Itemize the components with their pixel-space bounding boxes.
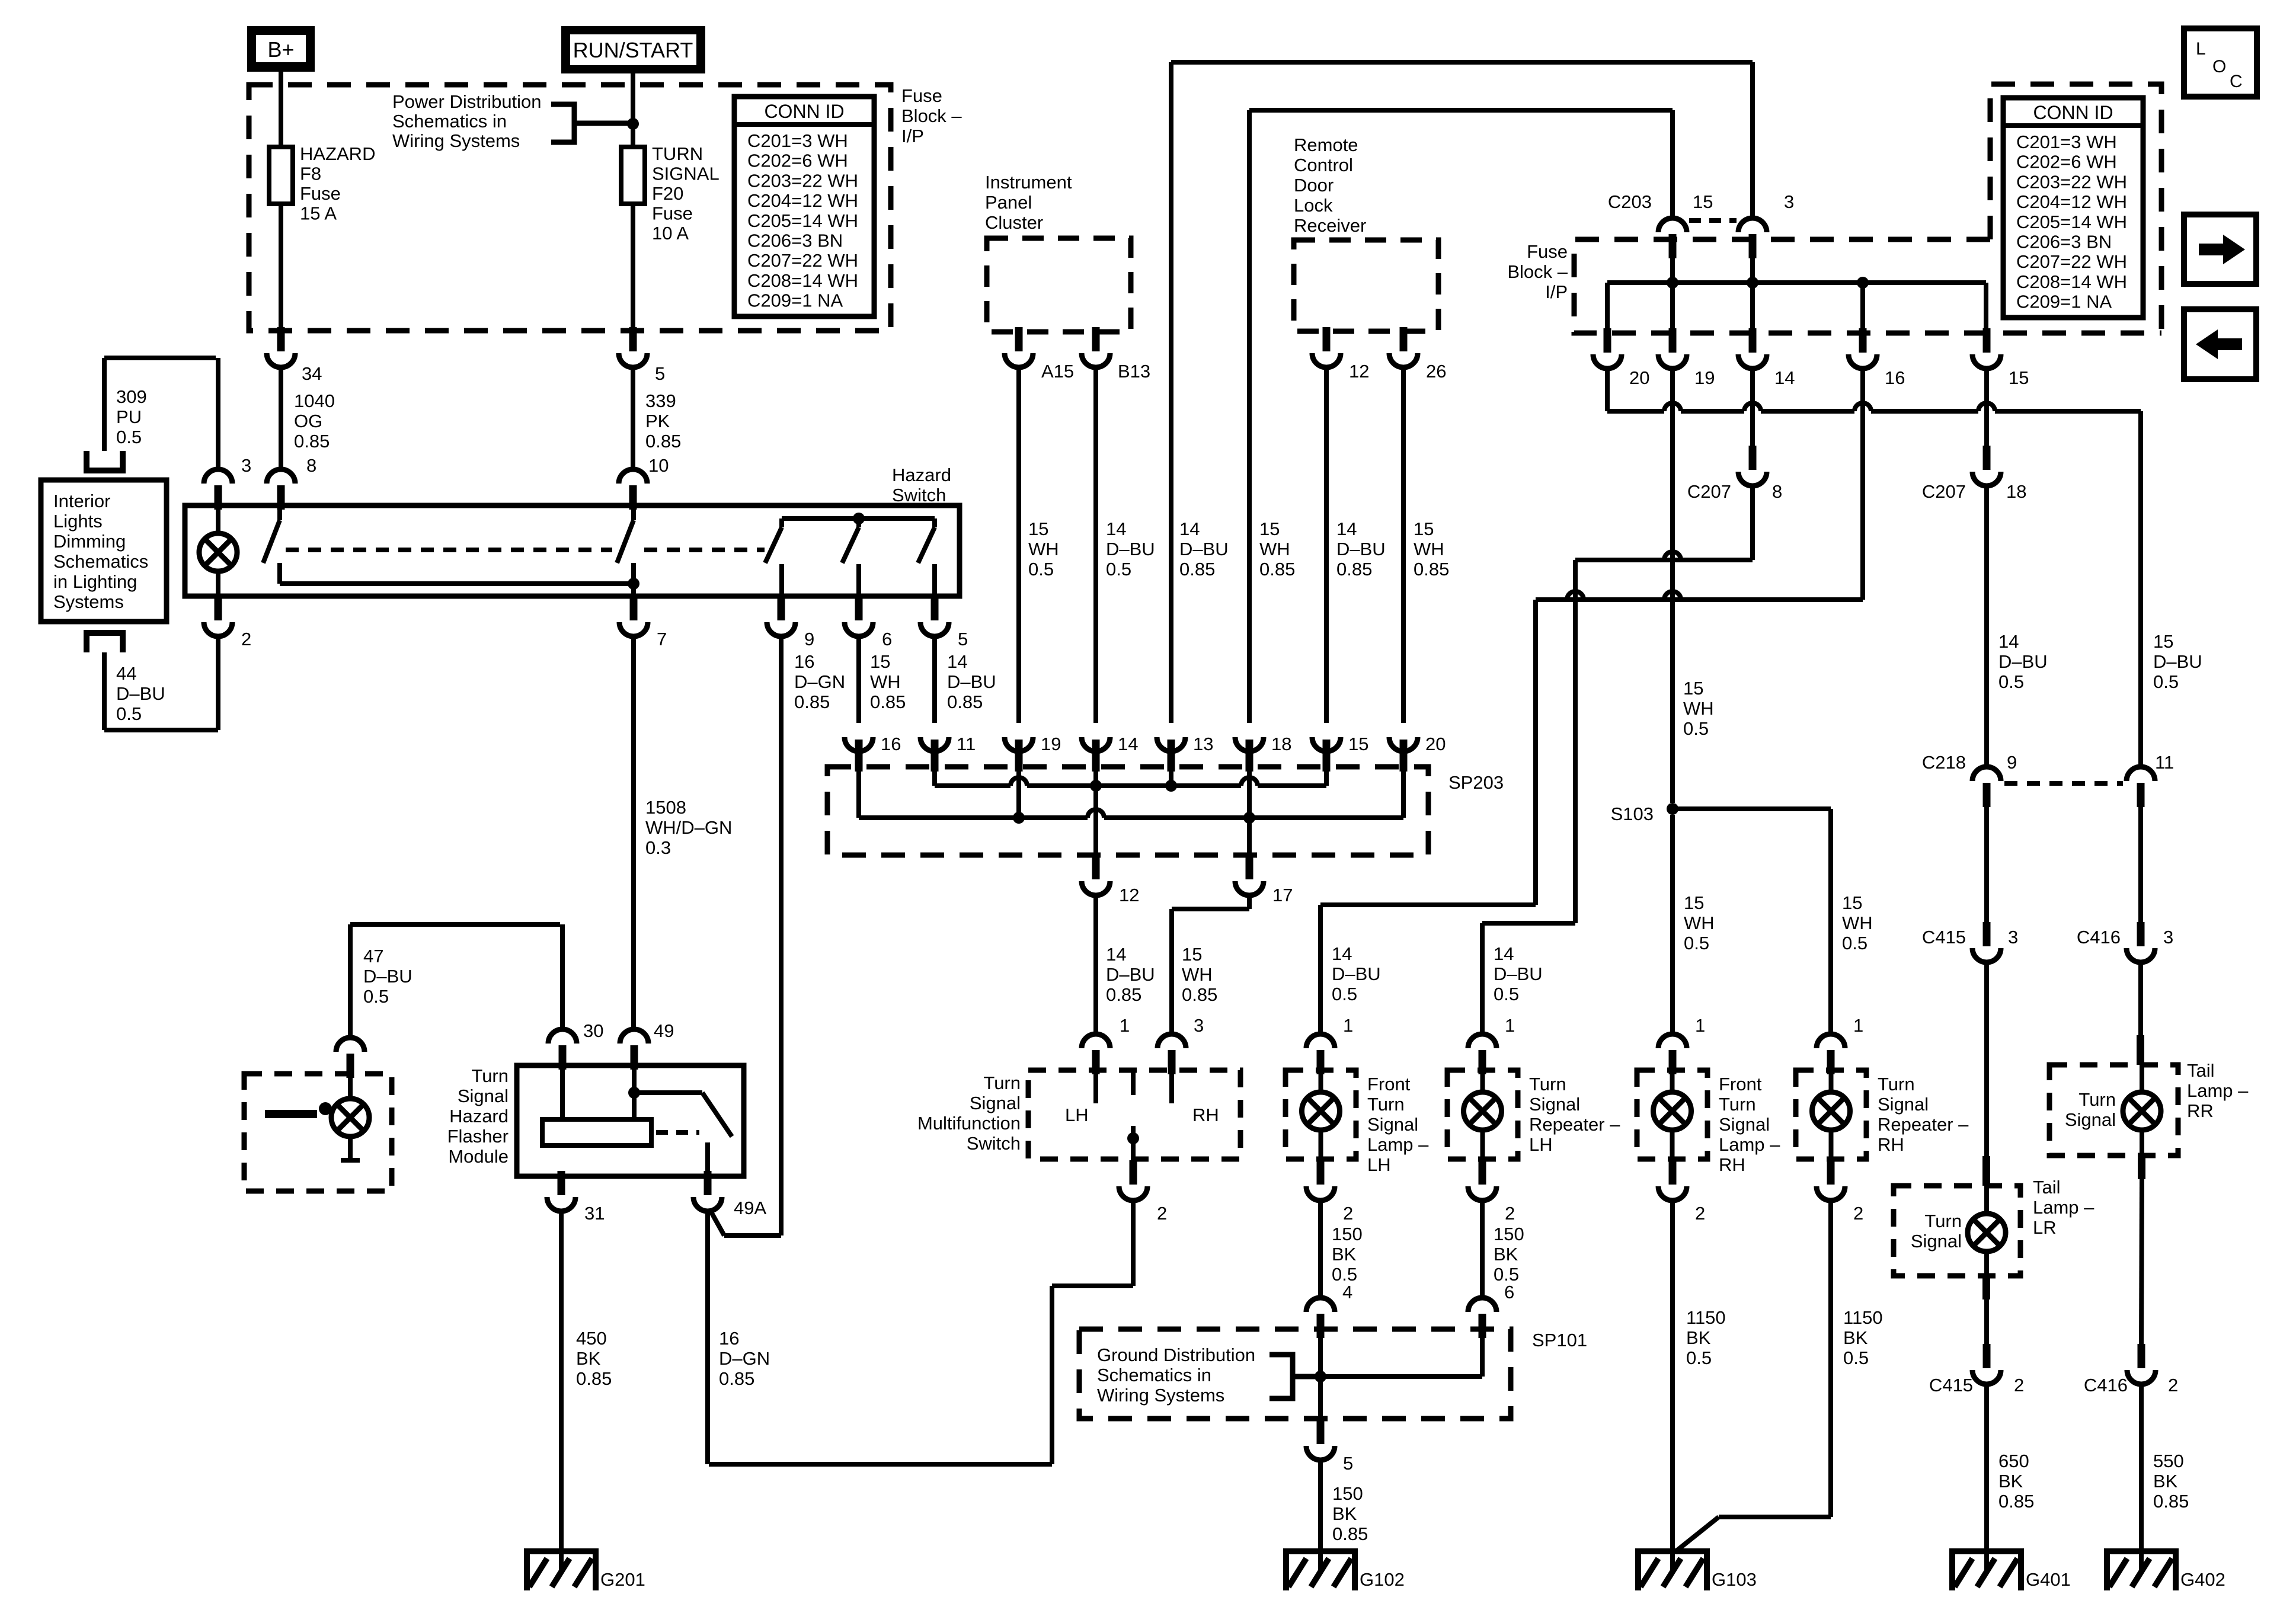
svg-text:Signal: Signal bbox=[1719, 1114, 1770, 1135]
svg-text:BK: BK bbox=[1843, 1327, 1868, 1348]
arrow box (right turn) bbox=[2184, 215, 2256, 284]
svg-text:5: 5 bbox=[1343, 1453, 1353, 1474]
svg-text:Block –: Block – bbox=[1507, 261, 1568, 282]
svg-text:15: 15 bbox=[1414, 518, 1434, 539]
flasher linkage dashed bbox=[656, 1130, 699, 1135]
wire A15 15 WH 0.5 to SP203-19 bbox=[1016, 367, 1021, 723]
svg-text:F8: F8 bbox=[300, 164, 321, 184]
svg-text:D–BU: D–BU bbox=[363, 966, 412, 987]
svg-text:2: 2 bbox=[1853, 1203, 1863, 1224]
svg-text:0.5: 0.5 bbox=[1998, 671, 2024, 692]
connector 1 lamp bbox=[1827, 1050, 1835, 1074]
wire remote-12 14 D-BU 0.85 to SP203-15 bbox=[1324, 367, 1329, 723]
svg-text:0.5: 0.5 bbox=[1106, 559, 1131, 580]
svg-text:Schematics in: Schematics in bbox=[1097, 1365, 1211, 1385]
svg-text:15: 15 bbox=[1842, 892, 1862, 913]
svg-text:Lamp –: Lamp – bbox=[2187, 1080, 2249, 1101]
bracket ground distribution bbox=[1269, 1355, 1293, 1398]
svg-text:1: 1 bbox=[1120, 1015, 1130, 1036]
svg-text:14: 14 bbox=[1106, 944, 1126, 965]
svg-text:Turn: Turn bbox=[983, 1073, 1021, 1093]
svg-text:A15: A15 bbox=[1041, 361, 1074, 382]
wires lamp LH / repeater LH grounds to SP101 bbox=[1318, 1201, 1323, 1298]
svg-text:0.5: 0.5 bbox=[116, 703, 142, 724]
svg-text:BK: BK bbox=[1494, 1244, 1518, 1265]
connector pin 14 fuse block right bbox=[1749, 328, 1757, 353]
wire SP203-13 up and over to C203-3 bbox=[1169, 62, 1173, 723]
svg-text:0.85: 0.85 bbox=[794, 692, 830, 712]
svg-text:S103: S103 bbox=[1611, 804, 1654, 824]
svg-text:1: 1 bbox=[1695, 1015, 1705, 1036]
svg-text:C415: C415 bbox=[1929, 1375, 1973, 1395]
svg-text:Power Distribution: Power Distribution bbox=[392, 91, 542, 112]
svg-text:15: 15 bbox=[1259, 518, 1280, 539]
svg-text:20: 20 bbox=[1425, 734, 1446, 754]
svg-text:14: 14 bbox=[1332, 943, 1352, 964]
Turn Signal Repeater RH bbox=[1796, 1070, 1866, 1159]
tail lamp LR bulb bbox=[1968, 1214, 2006, 1251]
flasher indicator lamp dashed box bbox=[244, 1074, 392, 1191]
svg-text:LH: LH bbox=[1065, 1105, 1089, 1125]
svg-text:Schematics: Schematics bbox=[53, 551, 148, 572]
svg-text:15: 15 bbox=[1693, 191, 1713, 212]
connector pin 34 (fuse block) bbox=[277, 327, 285, 351]
svg-text:2: 2 bbox=[1695, 1203, 1705, 1224]
connector C207-8 bbox=[1749, 446, 1757, 470]
connector 2 lamp bbox=[1317, 1160, 1325, 1185]
svg-text:G103: G103 bbox=[1712, 1569, 1757, 1590]
svg-text:RUN/START: RUN/START bbox=[573, 38, 693, 62]
wire C218-11 to C416-3 bbox=[2138, 795, 2143, 927]
svg-text:Turn: Turn bbox=[1924, 1211, 1962, 1231]
svg-text:SP203: SP203 bbox=[1448, 772, 1504, 793]
C207-8 wire to repeater LH bbox=[1750, 486, 1755, 560]
connector C203-15 bbox=[1669, 234, 1677, 258]
svg-text:Signal: Signal bbox=[2065, 1109, 2116, 1130]
svg-text:D–BU: D–BU bbox=[1179, 539, 1229, 559]
connector pin 8 hazard switch bbox=[277, 485, 285, 510]
svg-text:10 A: 10 A bbox=[652, 223, 689, 244]
ground G201 bbox=[527, 1548, 596, 1554]
SP203 top connector 14 bbox=[1082, 737, 1110, 751]
tail lamp RR bulb bbox=[2123, 1092, 2161, 1130]
svg-text:G401: G401 bbox=[2026, 1569, 2071, 1590]
svg-text:Receiver: Receiver bbox=[1294, 215, 1366, 236]
svg-text:Flasher: Flasher bbox=[447, 1126, 509, 1147]
svg-text:C208=14 WH: C208=14 WH bbox=[747, 270, 858, 291]
svg-text:3: 3 bbox=[2163, 927, 2173, 948]
svg-text:14: 14 bbox=[1106, 518, 1126, 539]
wire 650 BK to G401 bbox=[1984, 1384, 1989, 1571]
fuse block I/P dashed box (right) bbox=[1574, 239, 2161, 333]
svg-text:0.85: 0.85 bbox=[1332, 1523, 1368, 1544]
pin 16 wire to Front LH lamp bbox=[1860, 369, 1865, 600]
flasher internals: coil and switch bbox=[560, 1062, 565, 1119]
svg-text:15: 15 bbox=[870, 651, 890, 672]
svg-text:15: 15 bbox=[1348, 734, 1368, 754]
SP203 through wire 18 to 17 bbox=[1247, 770, 1252, 855]
svg-text:3: 3 bbox=[1784, 191, 1794, 212]
svg-text:14: 14 bbox=[1336, 518, 1357, 539]
SP203 top connector 15 bbox=[1312, 737, 1341, 751]
connector pin 19 fuse block right bbox=[1669, 328, 1677, 353]
connector C218-9 bbox=[1983, 783, 1991, 807]
RUN/START power feed box bbox=[561, 26, 705, 73]
svg-text:Fuse: Fuse bbox=[901, 85, 942, 106]
connector flasher indicator lamp bbox=[347, 1054, 354, 1078]
svg-text:3: 3 bbox=[1194, 1015, 1204, 1036]
svg-text:0.5: 0.5 bbox=[363, 986, 389, 1007]
svg-text:4: 4 bbox=[1342, 1282, 1352, 1302]
svg-text:34: 34 bbox=[302, 363, 322, 384]
svg-text:16: 16 bbox=[1885, 367, 1905, 388]
Tail Lamp LR dashed box bbox=[1894, 1186, 2020, 1276]
svg-text:2: 2 bbox=[1343, 1203, 1353, 1224]
rocker switch blade at 1449 bbox=[856, 518, 861, 527]
connector 1 lamp bbox=[1669, 1050, 1677, 1074]
svg-text:17: 17 bbox=[1272, 885, 1293, 905]
svg-text:Signal: Signal bbox=[1878, 1094, 1929, 1115]
svg-text:14: 14 bbox=[1494, 943, 1514, 964]
svg-text:C203=22 WH: C203=22 WH bbox=[747, 170, 858, 191]
connector 2 lamp bbox=[1479, 1160, 1486, 1185]
SP203 bottom connector 17 bbox=[1246, 855, 1253, 879]
svg-text:D–BU: D–BU bbox=[1494, 964, 1543, 984]
svg-text:D–BU: D–BU bbox=[1998, 651, 2048, 672]
svg-text:0.5: 0.5 bbox=[2153, 671, 2179, 692]
svg-text:0.85: 0.85 bbox=[719, 1368, 754, 1389]
svg-text:Fuse: Fuse bbox=[652, 203, 693, 224]
wire F20 to connector 5 bbox=[631, 204, 635, 332]
splice pack SP101 dashed box bbox=[1079, 1329, 1511, 1419]
SP101 internals bbox=[1318, 1331, 1323, 1419]
svg-text:Instrument: Instrument bbox=[985, 172, 1072, 193]
svg-text:Front: Front bbox=[1719, 1074, 1762, 1094]
SP203 bottom connector 12 bbox=[1092, 855, 1100, 879]
pin 20 bus to right and down bbox=[1605, 369, 1610, 411]
Tail Lamp RR dashed box bbox=[2049, 1065, 2178, 1156]
svg-text:0.5: 0.5 bbox=[1686, 1347, 1712, 1368]
B+ power feed box bbox=[247, 26, 315, 72]
svg-text:20: 20 bbox=[1629, 367, 1649, 388]
ground G401 bbox=[1952, 1548, 2021, 1554]
wire hazard pin 6 to SP203-16 bbox=[856, 636, 861, 723]
svg-text:12: 12 bbox=[1119, 885, 1139, 905]
svg-text:Front: Front bbox=[1367, 1074, 1411, 1094]
svg-text:Signal: Signal bbox=[1529, 1094, 1580, 1115]
Turn Signal Repeater LH bbox=[1447, 1070, 1518, 1159]
svg-text:150: 150 bbox=[1494, 1224, 1524, 1244]
svg-text:B+: B+ bbox=[267, 37, 294, 62]
wire hazard pin 5 to SP203-11 bbox=[932, 636, 937, 723]
flasher coil bbox=[542, 1119, 651, 1145]
svg-text:16: 16 bbox=[794, 651, 814, 672]
wire flasher 31 (450 BK) to G201 bbox=[559, 1211, 564, 1571]
svg-text:G201: G201 bbox=[600, 1569, 645, 1590]
svg-text:0.85: 0.85 bbox=[870, 692, 906, 712]
svg-text:WH: WH bbox=[1414, 539, 1444, 559]
svg-text:CONN ID: CONN ID bbox=[764, 101, 844, 122]
pin 19 wire down to S103 and Front RH lamp bbox=[1670, 369, 1675, 803]
svg-text:14: 14 bbox=[947, 651, 967, 672]
SP203 top connector 11 bbox=[920, 737, 949, 751]
right arrow bbox=[2199, 235, 2245, 264]
svg-text:D–GN: D–GN bbox=[794, 671, 845, 692]
svg-text:0.85: 0.85 bbox=[1106, 984, 1141, 1005]
svg-text:C204=12 WH: C204=12 WH bbox=[2016, 191, 2127, 212]
svg-text:0.3: 0.3 bbox=[645, 837, 671, 858]
svg-text:LR: LR bbox=[2033, 1217, 2057, 1238]
svg-text:WH: WH bbox=[1182, 964, 1213, 985]
svg-text:C416: C416 bbox=[2084, 1375, 2128, 1395]
svg-text:0.5: 0.5 bbox=[1028, 559, 1054, 580]
svg-text:Wiring Systems: Wiring Systems bbox=[392, 130, 520, 151]
svg-text:BK: BK bbox=[2153, 1471, 2178, 1491]
connector 1 lamp bbox=[1479, 1050, 1486, 1074]
svg-text:Control: Control bbox=[1294, 155, 1353, 175]
connector pin 15 fuse block right bbox=[1983, 328, 1991, 353]
svg-text:2: 2 bbox=[1157, 1203, 1167, 1224]
svg-text:C208=14 WH: C208=14 WH bbox=[2016, 271, 2127, 292]
svg-text:Lock: Lock bbox=[1294, 195, 1333, 216]
wire SP203-17 to multifunction switch RH bbox=[1247, 895, 1252, 909]
svg-text:Switch: Switch bbox=[967, 1133, 1021, 1154]
wire repeater RH ground to G103 bbox=[1828, 1201, 1833, 1517]
hazard indicator lamp bbox=[199, 533, 237, 571]
svg-text:1508: 1508 bbox=[645, 797, 686, 818]
svg-text:C205=14 WH: C205=14 WH bbox=[2016, 212, 2127, 232]
flasher switch blade bbox=[702, 1093, 732, 1137]
svg-text:339: 339 bbox=[645, 391, 676, 411]
svg-text:Tail: Tail bbox=[2033, 1177, 2061, 1198]
dimmer switch blade (pin 8 line) bbox=[277, 505, 282, 520]
svg-text:0.85: 0.85 bbox=[2153, 1491, 2189, 1512]
svg-text:1: 1 bbox=[1853, 1015, 1863, 1036]
connector 2 lamp bbox=[1669, 1160, 1677, 1185]
svg-text:D–BU: D–BU bbox=[2153, 651, 2202, 672]
svg-text:Signal: Signal bbox=[1367, 1114, 1418, 1135]
svg-text:B13: B13 bbox=[1118, 361, 1150, 382]
svg-text:14: 14 bbox=[1998, 631, 2019, 652]
SP203 through wire 14 to 12 bbox=[1093, 770, 1098, 855]
svg-text:C416: C416 bbox=[2077, 927, 2121, 948]
Hazard Switch box bbox=[185, 505, 960, 596]
svg-text:PK: PK bbox=[645, 411, 670, 431]
wire hazard pin 7 (1508 WH/D-GN) down to flasher 49 bbox=[631, 636, 636, 1029]
svg-text:Repeater –: Repeater – bbox=[1529, 1114, 1620, 1135]
wire 550 BK to G402 bbox=[2139, 1384, 2144, 1571]
svg-text:RH: RH bbox=[1878, 1134, 1904, 1155]
svg-text:C209=1 NA: C209=1 NA bbox=[747, 290, 843, 311]
svg-text:0.85: 0.85 bbox=[947, 692, 983, 712]
svg-text:14: 14 bbox=[1118, 734, 1138, 754]
svg-text:9: 9 bbox=[804, 629, 814, 649]
svg-text:I/P: I/P bbox=[1545, 281, 1568, 302]
arrow box (left turn) bbox=[2184, 309, 2256, 379]
connector 49A flasher bbox=[704, 1171, 712, 1195]
connector pin 10 hazard switch bbox=[629, 485, 637, 510]
Front Turn Signal Lamp RH bbox=[1637, 1070, 1707, 1159]
svg-text:5: 5 bbox=[958, 629, 968, 649]
fuse F8 HAZARD 15A bbox=[269, 147, 293, 204]
hazard rocker bus bbox=[782, 516, 935, 521]
wire 44 D-BU loop from hazard pin 2 bbox=[102, 652, 107, 730]
svg-text:Wiring Systems: Wiring Systems bbox=[1097, 1385, 1224, 1406]
S103 branch to repeater RH bbox=[1673, 806, 1831, 811]
svg-text:2: 2 bbox=[241, 629, 251, 649]
svg-text:C204=12 WH: C204=12 WH bbox=[747, 190, 858, 211]
wire 1040 OG down to hazard switch pin 8 bbox=[279, 367, 283, 469]
svg-text:8: 8 bbox=[306, 455, 316, 476]
svg-text:OG: OG bbox=[294, 411, 322, 431]
connector 2 lamp bbox=[1827, 1160, 1835, 1185]
SP203 top connector 13 bbox=[1157, 737, 1185, 751]
svg-text:Panel: Panel bbox=[985, 192, 1032, 213]
C218 connector dashed link bbox=[2004, 781, 2123, 786]
internal bus to pin 7 bbox=[280, 581, 634, 586]
svg-text:Lamp –: Lamp – bbox=[1719, 1134, 1780, 1155]
svg-text:49: 49 bbox=[654, 1020, 674, 1041]
connector 1 multifunction switch bbox=[1092, 1050, 1100, 1074]
svg-text:C206=3 BN: C206=3 BN bbox=[747, 231, 843, 251]
svg-text:Interior: Interior bbox=[53, 491, 110, 511]
SP203 internal bus (LH net) bbox=[932, 770, 937, 786]
svg-text:1040: 1040 bbox=[294, 391, 335, 411]
svg-text:5: 5 bbox=[655, 363, 665, 384]
wire SP203-18 up and over to C203-15 bbox=[1247, 110, 1252, 723]
wire 47 D-BU loop bbox=[560, 924, 565, 1029]
svg-text:L: L bbox=[2196, 39, 2206, 59]
rocker switch blade at 1319 bbox=[779, 518, 784, 527]
left arrow bbox=[2196, 329, 2242, 359]
svg-text:0.5: 0.5 bbox=[1684, 933, 1709, 953]
svg-text:BK: BK bbox=[1998, 1471, 2023, 1491]
svg-text:C218: C218 bbox=[1922, 752, 1966, 773]
svg-text:16: 16 bbox=[719, 1328, 739, 1349]
pin 14 wire to C207-8 bbox=[1750, 369, 1755, 451]
svg-text:WH: WH bbox=[1683, 698, 1714, 719]
svg-text:C207: C207 bbox=[1922, 481, 1966, 502]
svg-text:31: 31 bbox=[584, 1203, 605, 1224]
svg-text:1150: 1150 bbox=[1686, 1307, 1726, 1328]
svg-text:0.85: 0.85 bbox=[1336, 559, 1372, 580]
svg-text:CONN ID: CONN ID bbox=[2033, 102, 2113, 123]
svg-text:C201=3 WH: C201=3 WH bbox=[2016, 132, 2117, 152]
connector pin 9 hazard switch bbox=[778, 596, 785, 620]
svg-text:D–BU: D–BU bbox=[1106, 539, 1155, 559]
svg-text:0.85: 0.85 bbox=[1414, 559, 1449, 580]
wire multifunction-2 (16 D-GN) to 49A net bbox=[1131, 1201, 1136, 1286]
connector 5 SP101 bbox=[1317, 1420, 1325, 1444]
wire hazard pin 9 (16 D-GN) down to 49A net bbox=[779, 636, 784, 1235]
svg-text:0.85: 0.85 bbox=[576, 1368, 612, 1389]
svg-text:16: 16 bbox=[881, 734, 901, 754]
wire C218-9 to C415-3 bbox=[1984, 795, 1989, 927]
svg-text:1: 1 bbox=[1343, 1015, 1353, 1036]
svg-text:11: 11 bbox=[2155, 752, 2174, 773]
svg-text:15: 15 bbox=[1684, 892, 1704, 913]
connector C218-11 bbox=[2137, 783, 2145, 807]
svg-text:6: 6 bbox=[1504, 1282, 1514, 1302]
svg-text:2: 2 bbox=[1505, 1203, 1515, 1224]
svg-text:14: 14 bbox=[1774, 367, 1795, 388]
svg-text:9: 9 bbox=[2007, 752, 2017, 773]
mechanical linkage dashed bbox=[286, 548, 612, 552]
svg-text:2: 2 bbox=[2014, 1375, 2024, 1395]
wire 49A down to ground-distribution net bbox=[705, 1211, 710, 1464]
svg-text:Turn: Turn bbox=[1878, 1074, 1915, 1094]
svg-text:6: 6 bbox=[882, 629, 892, 649]
connector 1 lamp bbox=[1317, 1050, 1325, 1074]
connector 12 remote receiver bbox=[1323, 327, 1331, 351]
svg-text:450: 450 bbox=[576, 1328, 607, 1349]
svg-text:Lamp –: Lamp – bbox=[2033, 1197, 2094, 1218]
svg-text:1: 1 bbox=[1505, 1015, 1515, 1036]
svg-text:0.85: 0.85 bbox=[1998, 1491, 2034, 1512]
svg-text:Turn: Turn bbox=[1719, 1094, 1756, 1115]
svg-text:WH: WH bbox=[870, 671, 901, 692]
svg-text:Block –: Block – bbox=[901, 105, 962, 126]
SP203 top connector 20 bbox=[1389, 737, 1418, 751]
switch contacts inside multifunction switch bbox=[1093, 1070, 1098, 1103]
connector C415-3 bbox=[1983, 922, 1991, 946]
svg-text:C202=6 WH: C202=6 WH bbox=[747, 151, 848, 171]
svg-text:SIGNAL: SIGNAL bbox=[652, 164, 720, 184]
svg-text:RH: RH bbox=[1719, 1154, 1745, 1175]
svg-text:18: 18 bbox=[2006, 481, 2026, 502]
Front Turn Signal Lamp LH bbox=[1285, 1070, 1356, 1159]
wire RUN/START to fuse F20 bbox=[631, 73, 635, 147]
Instrument Panel Cluster dashed box bbox=[987, 238, 1131, 332]
junction internal bus / pin 7 bbox=[628, 578, 639, 590]
Tail Lamp RR bbox=[2138, 962, 2143, 1035]
svg-text:WH/D–GN: WH/D–GN bbox=[645, 817, 732, 838]
svg-text:0.85: 0.85 bbox=[294, 431, 330, 452]
svg-text:Signal: Signal bbox=[1911, 1231, 1962, 1251]
wire 14 D-BU 0.5 to C218-9 bbox=[1984, 486, 1989, 767]
connector pin 16 fuse block right bbox=[1859, 328, 1867, 353]
svg-text:O: O bbox=[2212, 57, 2226, 76]
Interior Lights Dimming Schematics box bbox=[41, 480, 167, 622]
connector 6 SP101 bbox=[1479, 1314, 1486, 1338]
svg-text:14: 14 bbox=[1179, 518, 1200, 539]
svg-text:12: 12 bbox=[1349, 361, 1369, 382]
connector 26 remote receiver bbox=[1400, 327, 1408, 351]
svg-text:D–BU: D–BU bbox=[947, 671, 996, 692]
svg-text:8: 8 bbox=[1772, 481, 1782, 502]
junction: power distribution tap bbox=[627, 118, 639, 130]
connector 31 flasher bbox=[558, 1171, 565, 1195]
svg-text:150: 150 bbox=[1332, 1483, 1363, 1504]
svg-text:LH: LH bbox=[1367, 1154, 1391, 1175]
svg-text:in Lighting: in Lighting bbox=[53, 571, 137, 592]
svg-text:0.5: 0.5 bbox=[1494, 984, 1519, 1004]
svg-text:11: 11 bbox=[957, 734, 976, 754]
svg-text:15: 15 bbox=[1182, 944, 1202, 965]
svg-text:Remote: Remote bbox=[1294, 135, 1358, 155]
svg-text:BK: BK bbox=[576, 1348, 601, 1369]
svg-text:Schematics in: Schematics in bbox=[392, 111, 507, 132]
svg-text:Tail: Tail bbox=[2187, 1060, 2215, 1081]
connector A15 cluster bbox=[1015, 327, 1023, 351]
svg-text:TURN: TURN bbox=[652, 143, 703, 164]
svg-text:49A: 49A bbox=[734, 1198, 766, 1218]
connector B13 cluster bbox=[1092, 327, 1100, 351]
Turn Signal Hazard Flasher Module box bbox=[517, 1065, 744, 1176]
svg-text:26: 26 bbox=[1426, 361, 1446, 382]
svg-text:Fuse: Fuse bbox=[300, 183, 341, 204]
svg-text:C203: C203 bbox=[1608, 191, 1652, 212]
